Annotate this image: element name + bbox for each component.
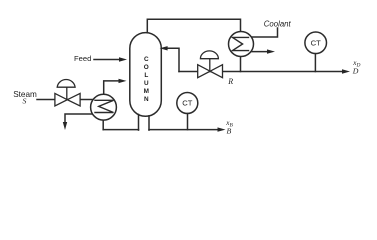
- arrowhead feed into column: [119, 57, 127, 61]
- steam control valve body: [55, 93, 80, 106]
- svg-text:D: D: [352, 66, 359, 75]
- wire condensate outlet from reboiler: [65, 114, 93, 123]
- arrowhead coolant outlet: [267, 49, 275, 53]
- arrowhead condensate down: [63, 122, 67, 130]
- wire coolant inlet: [251, 28, 278, 37]
- wire feed line: [94, 59, 121, 61]
- svg-text:CT: CT: [182, 99, 192, 108]
- composition transmitter CT bottom: [177, 93, 198, 114]
- svg-text:Coolant: Coolant: [264, 19, 292, 28]
- arrowhead distillate D: [342, 69, 350, 73]
- svg-text:CT: CT: [311, 39, 321, 48]
- wire distillate product line: [179, 71, 344, 73]
- wire CT top tap: [314, 54, 316, 72]
- wire CT bottom tap: [187, 114, 189, 130]
- composition transmitter CT top: [305, 32, 327, 54]
- wire coolant outlet: [250, 51, 269, 53]
- wire reboiler bottom drop: [102, 120, 104, 130]
- arrowhead vapor return into column: [119, 79, 127, 83]
- wire overhead vapor line from column top to condenser: [147, 19, 240, 32]
- steam control valve actuator: [66, 87, 68, 98]
- wire reboiler vapor return to column: [104, 81, 120, 95]
- arrowhead reflux into column: [160, 46, 168, 50]
- wire steam supply line: [37, 99, 93, 101]
- control valve R actuator: [209, 59, 211, 70]
- condenser heat exchanger: [229, 32, 254, 57]
- svg-text:B: B: [227, 126, 232, 135]
- svg-text:Feed: Feed: [74, 54, 91, 63]
- wire condenser to product line: [240, 56, 242, 71]
- column bottom neck: [138, 115, 140, 131]
- column C1 vessel: [130, 33, 162, 117]
- svg-text:R: R: [227, 77, 233, 86]
- arrowhead bottoms B: [218, 127, 226, 131]
- svg-text:S: S: [23, 97, 27, 106]
- wire reflux line back to column: [166, 48, 179, 71]
- wire bottoms product line: [103, 129, 138, 131]
- reboiler heat exchanger: [91, 94, 117, 120]
- svg-text:COLUMN: COLUMN: [144, 56, 149, 103]
- control valve R body: [198, 65, 223, 78]
